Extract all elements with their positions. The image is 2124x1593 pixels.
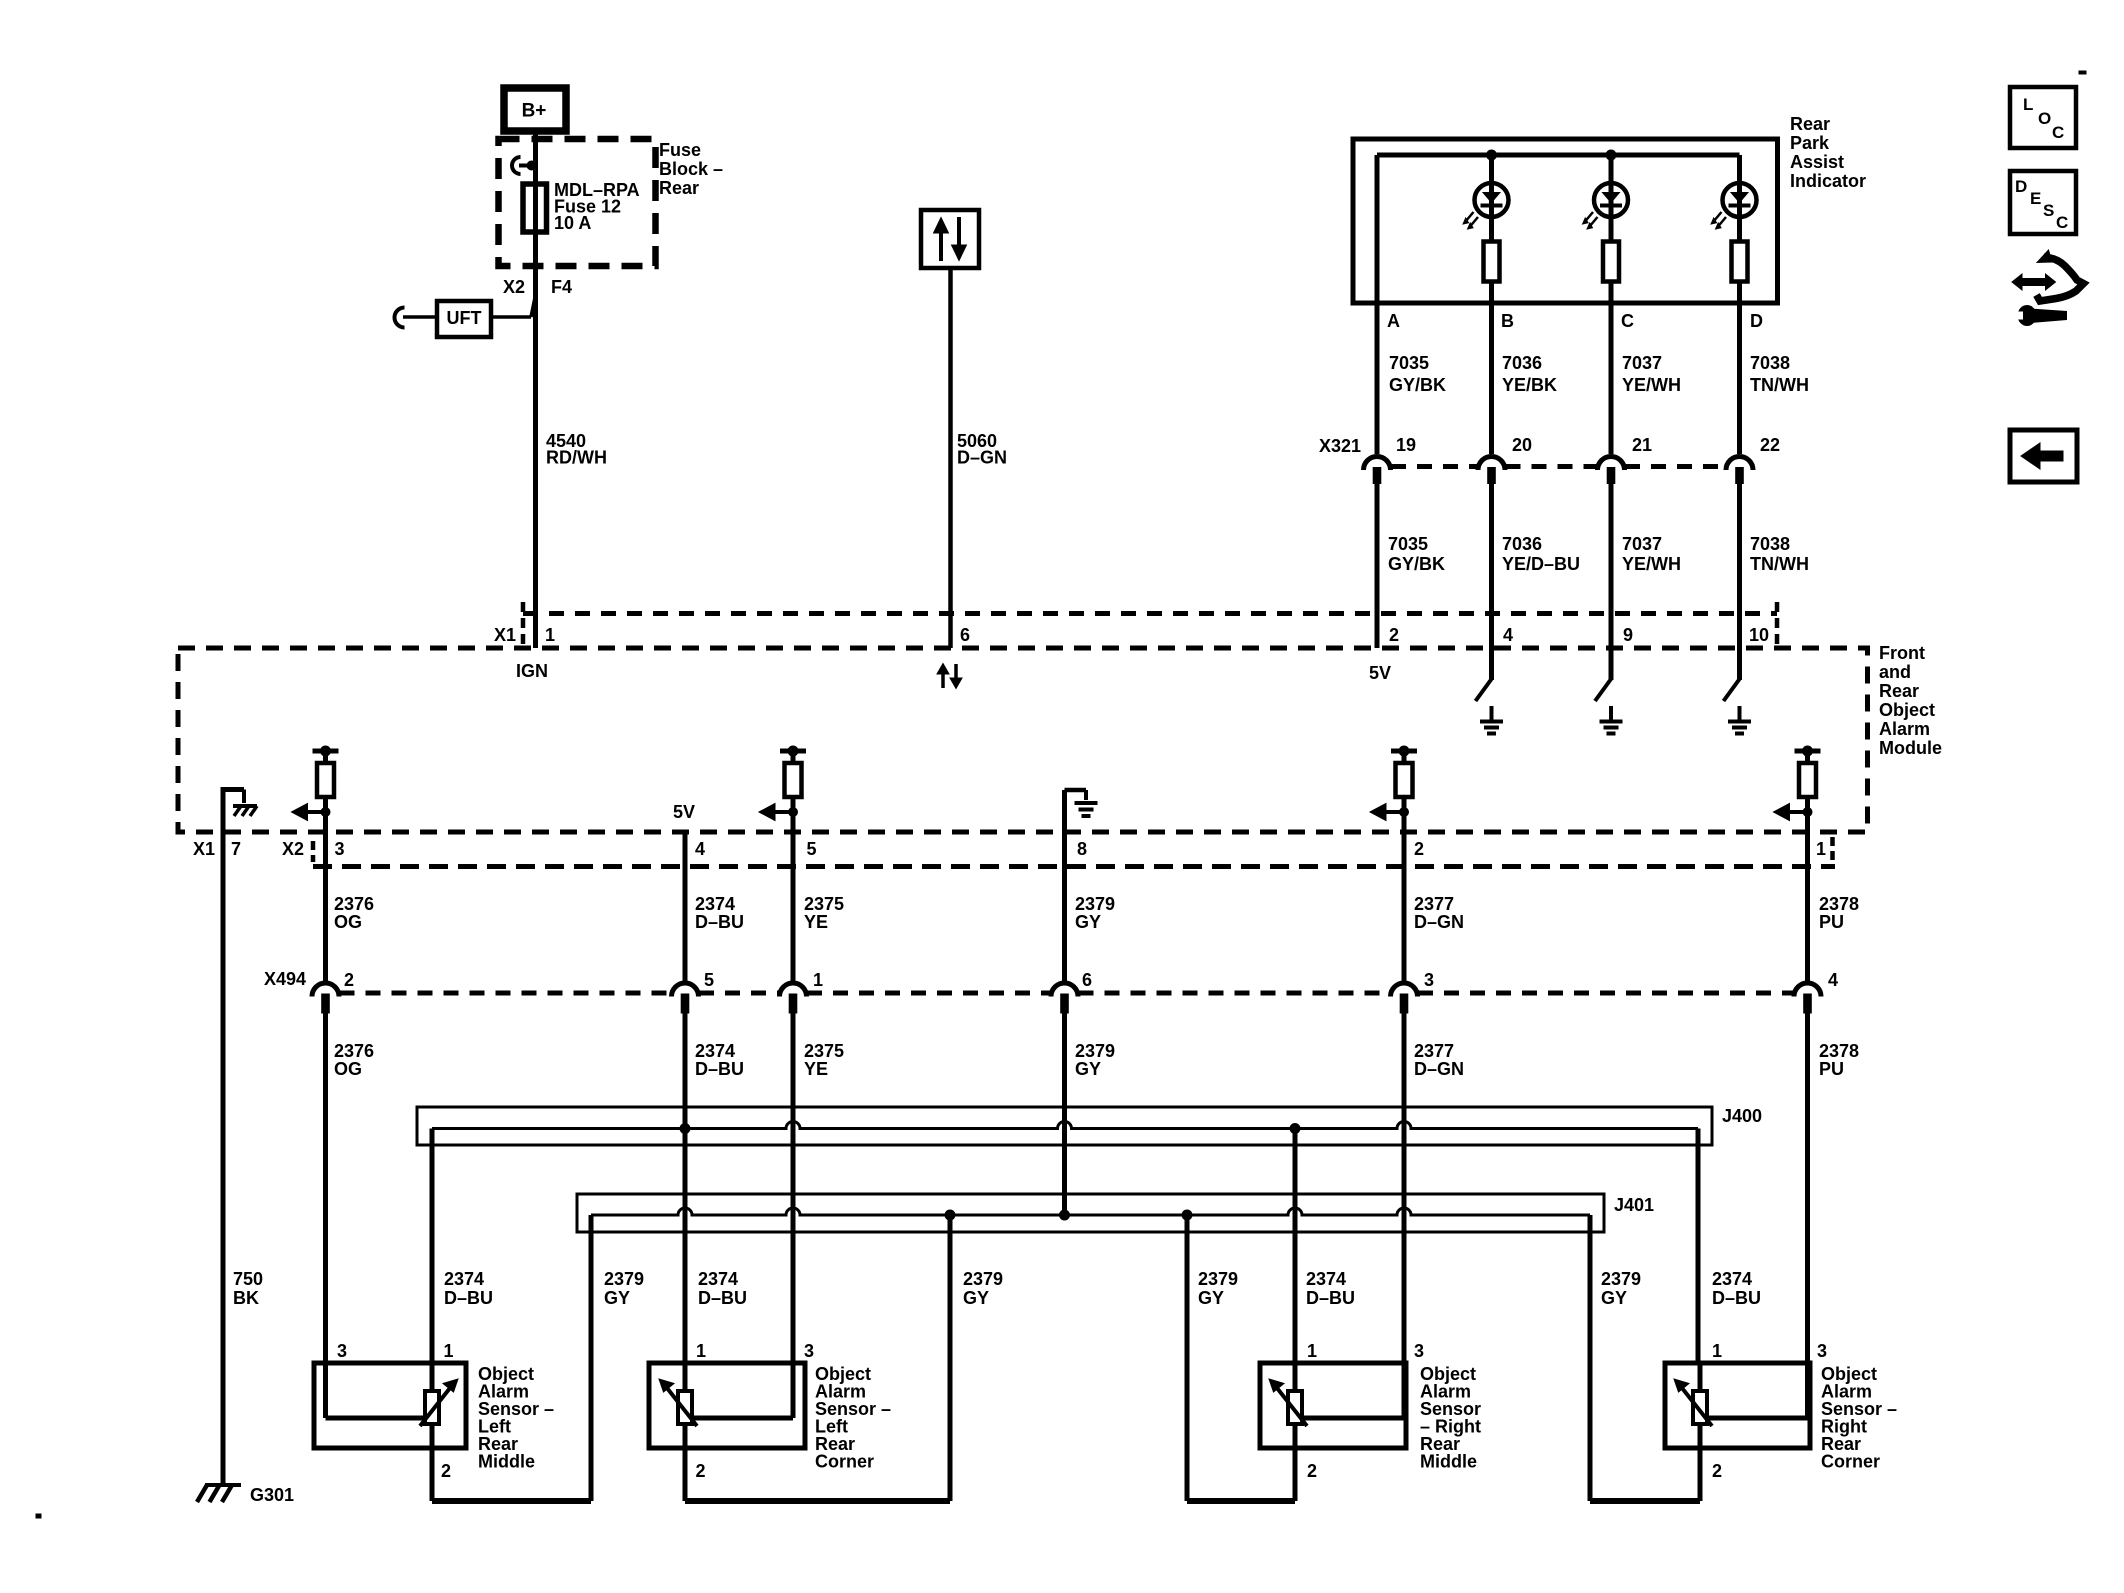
svg-text:1: 1 [1712, 1341, 1722, 1361]
LED indicator lamp B [1463, 155, 1509, 242]
svg-text:2376: 2376 [334, 1041, 374, 1061]
svg-text:D: D [2015, 177, 2027, 196]
svg-text:4: 4 [1828, 970, 1838, 990]
svg-text:2378: 2378 [1819, 894, 1859, 914]
svg-text:5: 5 [704, 970, 714, 990]
svg-text:X1: X1 [494, 625, 516, 645]
fuse block - rear dashed box [499, 139, 656, 266]
svg-text:2: 2 [1307, 1461, 1317, 1481]
svg-text:Rear: Rear [659, 178, 699, 198]
svg-text:X494: X494 [264, 969, 306, 989]
output driver at X2 pin 1 [1774, 746, 1821, 832]
svg-text:YE/D–BU: YE/D–BU [1502, 554, 1580, 574]
indicator label [1790, 114, 1866, 191]
wire J401 right drop (GY) to sensor 4 pin 2 [1590, 1215, 1700, 1501]
wire A inside indicator [1375, 155, 1380, 454]
svg-text:2: 2 [1712, 1461, 1722, 1481]
diagnostic arrows and wrench icon [2012, 250, 2084, 326]
svg-text:19: 19 [1396, 435, 1416, 455]
svg-text:1: 1 [813, 970, 823, 990]
svg-text:Module: Module [1879, 738, 1942, 758]
splice pack J401 (2379 GY bus) [577, 1194, 1654, 1232]
wire 2374 D-BU down through J400 to sensor left rear corner pin 1 [683, 1013, 688, 1363]
svg-text:9: 9 [1623, 625, 1633, 645]
svg-text:Rear: Rear [1790, 114, 1830, 134]
wire 2377 D-GN : X2 pin 2 to X494 pin 3 [1402, 832, 1407, 981]
svg-text:O: O [2038, 109, 2051, 128]
svg-text:1: 1 [1816, 839, 1826, 859]
svg-text:2379: 2379 [1198, 1269, 1238, 1289]
module label Front and Rear Object Alarm Module [1879, 643, 1942, 758]
svg-text:GY/BK: GY/BK [1389, 375, 1446, 395]
svg-text:X2: X2 [282, 839, 304, 859]
svg-text:D–GN: D–GN [957, 448, 1007, 468]
wire 2375 YE down to sensor left rear corner pin 3 [791, 1013, 796, 1363]
svg-text:7037: 7037 [1622, 353, 1662, 373]
wire 750 BK : X1 pin 7 to G301 [221, 832, 226, 1485]
svg-text:2: 2 [441, 1461, 451, 1481]
rear park assist indicator box [1353, 139, 1778, 303]
svg-text:IGN: IGN [516, 661, 548, 681]
svg-text:B+: B+ [522, 101, 547, 122]
svg-text:2375: 2375 [804, 894, 844, 914]
LOC icon box [2010, 87, 2076, 148]
svg-text:7035: 7035 [1388, 534, 1428, 554]
svg-text:3: 3 [1817, 1341, 1827, 1361]
svg-text:GY/BK: GY/BK [1388, 554, 1445, 574]
svg-text:RD/WH: RD/WH [546, 448, 607, 468]
svg-text:Rear: Rear [1879, 681, 1919, 701]
svg-text:D–BU: D–BU [444, 1288, 493, 1308]
wire 2376 OG down to sensor left rear middle pin 3 [323, 1013, 328, 1363]
svg-text:GY: GY [1075, 1059, 1101, 1079]
svg-text:X321: X321 [1319, 436, 1361, 456]
svg-text:2375: 2375 [804, 1041, 844, 1061]
wire 2376 OG : X2 pin 3 to X494 pin 2 [323, 832, 328, 981]
svg-text:2379: 2379 [1075, 1041, 1115, 1061]
svg-text:21: 21 [1632, 435, 1652, 455]
fuse label [554, 180, 640, 233]
svg-text:PU: PU [1819, 1059, 1844, 1079]
fuse MDL-RPA Fuse 12 10A [523, 184, 547, 232]
svg-text:2374: 2374 [1306, 1269, 1346, 1289]
page mark bottom left [36, 1514, 41, 1518]
svg-text:Alarm: Alarm [1879, 719, 1930, 739]
serial data box with up/down arrows [921, 210, 979, 268]
svg-text:2378: 2378 [1819, 1041, 1859, 1061]
svg-text:2374: 2374 [695, 894, 735, 914]
5V label at X1 pin 2 [1369, 663, 1391, 683]
wires X321 to module X1 pins 2/4/9/10 [1377, 484, 1740, 648]
back arrow icon box [2010, 430, 2077, 482]
svg-text:X2: X2 [503, 277, 525, 297]
wire J401 drop (GY) to sensor 3 pin 2 [1187, 1215, 1295, 1501]
svg-text:C: C [1621, 311, 1634, 331]
svg-text:4: 4 [1503, 625, 1513, 645]
object alarm sensor - left rear corner [649, 1341, 891, 1481]
svg-text:2377: 2377 [1414, 894, 1454, 914]
wire: UFT tap to fuse output [491, 295, 536, 317]
svg-text:C: C [2056, 213, 2068, 232]
connector X2 row (module bottom) [282, 837, 1835, 867]
svg-text:OG: OG [334, 1059, 362, 1079]
wire: serial data to module X1 pin 6 (5060 D-GN) [948, 268, 953, 648]
svg-text:D–GN: D–GN [1414, 1059, 1464, 1079]
svg-text:YE/WH: YE/WH [1622, 554, 1681, 574]
5V label at X2 pin 4 [673, 802, 695, 822]
svg-text:1: 1 [545, 625, 555, 645]
output driver at X2 pin 3 [292, 746, 339, 832]
wire label 4540 RD/WH [546, 431, 607, 468]
svg-text:2379: 2379 [604, 1269, 644, 1289]
wire 2377 D-GN down to sensor right rear middle pin 3 [1402, 1013, 1407, 1363]
svg-text:Front: Front [1879, 643, 1925, 663]
B+ battery positive voltage symbol [504, 88, 566, 131]
svg-text:7: 7 [231, 839, 241, 859]
UFT connector terminal hook [395, 308, 405, 328]
wire labels row below X494 [334, 1041, 1859, 1079]
svg-text:2377: 2377 [1414, 1041, 1454, 1061]
svg-text:G301: G301 [250, 1485, 294, 1505]
svg-text:6: 6 [1082, 970, 1092, 990]
svg-text:1: 1 [444, 1341, 454, 1361]
svg-text:YE: YE [804, 1059, 828, 1079]
svg-text:3: 3 [337, 1341, 347, 1361]
wire 2379 GY down to J401 [1062, 1013, 1067, 1215]
svg-text:5V: 5V [673, 802, 695, 822]
wire labels row (2376 OG / 2374 D-BU / 2375 YE / 2379 GY / 2377 D-GN / 2378 PU) [334, 894, 1859, 932]
svg-text:B: B [1501, 311, 1514, 331]
svg-text:10 A: 10 A [554, 213, 591, 233]
resistor in series with LED B [1484, 242, 1500, 455]
DESC icon box [2010, 171, 2076, 234]
connector X494 row [264, 969, 1838, 1013]
svg-text:Assist: Assist [1790, 152, 1844, 172]
svg-text:YE/WH: YE/WH [1622, 375, 1681, 395]
svg-text:Object: Object [1879, 700, 1935, 720]
svg-text:2: 2 [696, 1461, 706, 1481]
svg-text:3: 3 [1424, 970, 1434, 990]
svg-text:and: and [1879, 662, 1911, 682]
svg-text:Middle: Middle [478, 1452, 535, 1472]
svg-text:YE: YE [804, 912, 828, 932]
svg-text:1: 1 [696, 1341, 706, 1361]
indicator pin letters A B C D [1387, 311, 1763, 331]
switch to ground at X1 pin 9 [1595, 648, 1623, 734]
svg-text:D–BU: D–BU [695, 1059, 744, 1079]
object alarm sensor - right rear middle [1260, 1341, 1481, 1481]
switch to ground at X1 pin 4 [1476, 648, 1504, 734]
svg-text:1: 1 [1307, 1341, 1317, 1361]
svg-text:20: 20 [1512, 435, 1532, 455]
internal chassis ground at X1 pin 7 [223, 787, 257, 832]
svg-text:J401: J401 [1614, 1195, 1654, 1215]
svg-text:2374: 2374 [1712, 1269, 1752, 1289]
svg-text:TN/WH: TN/WH [1750, 554, 1809, 574]
svg-text:UFT: UFT [447, 308, 482, 328]
svg-text:Middle: Middle [1420, 1452, 1477, 1472]
svg-text:D–BU: D–BU [698, 1288, 747, 1308]
svg-text:S: S [2043, 201, 2054, 220]
svg-text:2374: 2374 [695, 1041, 735, 1061]
svg-text:7036: 7036 [1502, 353, 1542, 373]
svg-text:2374: 2374 [444, 1269, 484, 1289]
svg-text:3: 3 [335, 839, 345, 859]
svg-text:GY: GY [604, 1288, 630, 1308]
wire 2378 PU down to sensor right rear corner pin 3 [1805, 1013, 1810, 1363]
splice pack J400 (2374 D-BU bus) [417, 1106, 1762, 1145]
svg-text:L: L [2023, 95, 2033, 114]
svg-text:7038: 7038 [1750, 534, 1790, 554]
serial data up/down arrows inside module [937, 664, 962, 689]
svg-text:GY: GY [1075, 912, 1101, 932]
svg-text:D: D [1750, 311, 1763, 331]
wire J401 drop (GY) to sensor 2 pin 2 [685, 1215, 950, 1501]
svg-text:D–BU: D–BU [695, 912, 744, 932]
connector X1 row (module top) [494, 602, 1777, 645]
svg-text:2: 2 [344, 970, 354, 990]
svg-text:7036: 7036 [1502, 534, 1542, 554]
wire J401 left drop (GY) to sensor 1 pin 2 [432, 1215, 591, 1501]
svg-text:D–BU: D–BU [1712, 1288, 1761, 1308]
svg-text:Fuse: Fuse [659, 140, 701, 160]
svg-text:C: C [2052, 123, 2064, 142]
svg-text:D–BU: D–BU [1306, 1288, 1355, 1308]
svg-text:5V: 5V [1369, 663, 1391, 683]
svg-text:D–GN: D–GN [1414, 912, 1464, 932]
svg-text:5: 5 [807, 839, 817, 859]
wire 2375 YE : X2 pin 5 to X494 pin 1 [791, 832, 796, 981]
wire label 5060 D-GN [957, 431, 1007, 468]
wire J400 dot drop to sensor right rear middle pin 1 [1293, 1129, 1298, 1364]
svg-text:2379: 2379 [1075, 894, 1115, 914]
output driver at X2 pin 5 [759, 746, 806, 832]
page mark top right [2079, 71, 2086, 74]
bottom wire labels 2374/2379 row [444, 1269, 1761, 1308]
wire labels 7035 GY/BK, 7036 YE/BK, 7037 YE/WH, 7038 TN/WH [1389, 353, 1809, 395]
wire 2379 GY : X2 pin 8 to X494 pin 6 [1062, 832, 1067, 981]
svg-text:A: A [1387, 311, 1400, 331]
UFT box [403, 301, 491, 337]
svg-text:2: 2 [1414, 839, 1424, 859]
svg-text:3: 3 [804, 1341, 814, 1361]
resistor in series with LED D [1732, 242, 1748, 455]
wire J400 left drop to sensor left rear middle pin 1 [430, 1129, 435, 1364]
wire: B+ to fuse to module X1 pin 1 (4540 RD/WH) [533, 131, 538, 648]
svg-text:2: 2 [1389, 625, 1399, 645]
svg-text:2379: 2379 [963, 1269, 1003, 1289]
output driver at X2 pin 2 [1370, 746, 1417, 832]
wire J400 right drop to sensor right rear corner pin 1 [1696, 1129, 1701, 1364]
svg-text:7038: 7038 [1750, 353, 1790, 373]
svg-text:Park: Park [1790, 133, 1830, 153]
wire labels 7035 GY/BK, 7036 YE/D-BU, 7037 YE/WH, 7038 TN/WH [1388, 534, 1809, 574]
svg-text:10: 10 [1749, 625, 1769, 645]
svg-text:4: 4 [695, 839, 705, 859]
svg-text:E: E [2030, 189, 2041, 208]
svg-text:7035: 7035 [1389, 353, 1429, 373]
svg-text:2379: 2379 [1601, 1269, 1641, 1289]
wire label 750 BK [233, 1269, 263, 1308]
svg-text:F4: F4 [551, 277, 572, 297]
connector label X2 / F4 [503, 277, 572, 297]
svg-text:2374: 2374 [698, 1269, 738, 1289]
svg-text:8: 8 [1077, 839, 1087, 859]
svg-text:BK: BK [233, 1288, 259, 1308]
svg-text:750: 750 [233, 1269, 263, 1289]
switch to ground at X1 pin 10 [1724, 648, 1752, 734]
svg-text:X1: X1 [193, 839, 215, 859]
fuse block label [659, 140, 723, 198]
svg-text:YE/BK: YE/BK [1502, 375, 1557, 395]
svg-text:GY: GY [1198, 1288, 1224, 1308]
object alarm sensor - right rear corner [1665, 1341, 1897, 1481]
svg-text:GY: GY [1601, 1288, 1627, 1308]
LED indicator lamp D [1711, 155, 1757, 242]
ground G301 [197, 1485, 294, 1505]
svg-text:Block –: Block – [659, 159, 723, 179]
IGN label at X1 pin 1 [516, 661, 548, 681]
internal ground at X2 pin 8 [1065, 790, 1098, 832]
svg-text:22: 22 [1760, 435, 1780, 455]
object alarm sensor - left rear middle [314, 1341, 554, 1481]
connector X1 pin 7 label (module bottom left) [193, 839, 241, 859]
svg-text:7037: 7037 [1622, 534, 1662, 554]
connector terminal hook inside fuse block [512, 157, 536, 174]
svg-text:J400: J400 [1722, 1106, 1762, 1126]
wire 2378 PU : X2 pin 1 to X494 pin 4 [1805, 832, 1810, 981]
svg-text:OG: OG [334, 912, 362, 932]
indicator internal supply bus [1377, 150, 1740, 160]
svg-text:TN/WH: TN/WH [1750, 375, 1809, 395]
svg-text:GY: GY [963, 1288, 989, 1308]
connector X321 row [1319, 435, 1780, 484]
svg-text:Indicator: Indicator [1790, 171, 1866, 191]
svg-text:2376: 2376 [334, 894, 374, 914]
wire 2374 D-BU : X2 pin 4 to X494 pin 5 [683, 832, 688, 981]
svg-text:Corner: Corner [1821, 1452, 1880, 1472]
resistor in series with LED C [1603, 242, 1619, 455]
svg-text:Corner: Corner [815, 1452, 874, 1472]
svg-text:PU: PU [1819, 912, 1844, 932]
LED indicator lamp C [1583, 155, 1629, 242]
svg-text:3: 3 [1414, 1341, 1424, 1361]
module dashed border [178, 648, 1868, 832]
svg-text:6: 6 [960, 625, 970, 645]
